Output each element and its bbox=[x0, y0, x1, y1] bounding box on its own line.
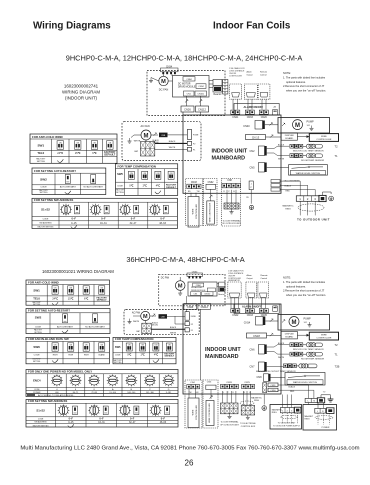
svg-text:1 2: 1 2 bbox=[128, 349, 130, 351]
svg-text:RING: RING bbox=[254, 400, 259, 402]
svg-text:CONTROLLER: CONTROLLER bbox=[229, 76, 243, 78]
svg-text:CN26: CN26 bbox=[187, 306, 194, 309]
svg-text:ROOM TEMP. SENSOR: ROOM TEMP. SENSOR bbox=[301, 358, 325, 360]
svg-text:SW5: SW5 bbox=[115, 345, 121, 349]
svg-text:GENERATOR: GENERATOR bbox=[228, 279, 240, 282]
svg-text:FUSE: FUSE bbox=[191, 316, 197, 318]
svg-text:1 2: 1 2 bbox=[85, 350, 87, 352]
svg-text:BLACK: BLACK bbox=[278, 143, 285, 146]
svg-text:S1+S2: S1+S2 bbox=[36, 409, 45, 413]
svg-text:16–31: 16–31 bbox=[98, 422, 105, 424]
svg-text:RING: RING bbox=[272, 412, 277, 414]
svg-text:AC FAN: AC FAN bbox=[140, 125, 149, 128]
svg-text:16023000001021 WIRING DIAGRA: 16023000001021 WIRING DIAGRAM bbox=[42, 269, 114, 274]
svg-text:WIRE: WIRE bbox=[321, 136, 327, 138]
svg-text:CONTROLLER: CONTROLLER bbox=[316, 139, 331, 141]
svg-text:TO ELECTRICAL: TO ELECTRICAL bbox=[240, 422, 257, 425]
svg-text:141–180: 141–180 bbox=[146, 392, 155, 394]
svg-text:9HCHP0-C-M-A, 12HCHP0-C-M-A, 1: 9HCHP0-C-M-A, 12HCHP0-C-M-A, 18HCHP0-C-M… bbox=[66, 54, 303, 63]
svg-text:AUTO-RESTART: AUTO-RESTART bbox=[57, 326, 74, 329]
svg-text:36HCHP0-C-M-A, 48HCHP0-C-M-A: 36HCHP0-C-M-A, 48HCHP0-C-M-A bbox=[126, 255, 244, 264]
svg-text:72–88: 72–88 bbox=[91, 392, 97, 394]
svg-text:NOTE:: NOTE: bbox=[283, 71, 291, 75]
svg-text:WIRE: WIRE bbox=[193, 409, 195, 415]
svg-text:CN28: CN28 bbox=[226, 382, 232, 384]
svg-text:M: M bbox=[161, 79, 166, 85]
svg-text:SW2: SW2 bbox=[40, 178, 47, 182]
svg-text:when you use the "on-off" func: when you use the "on-off" function. bbox=[286, 89, 326, 93]
svg-text:RED: RED bbox=[290, 391, 295, 393]
svg-text:1 2: 1 2 bbox=[101, 293, 103, 295]
svg-text:32–47: 32–47 bbox=[129, 422, 136, 424]
svg-text:HIGH: HIGH bbox=[84, 354, 89, 356]
svg-text:RING: RING bbox=[285, 208, 291, 210]
svg-text:WHITE: WHITE bbox=[278, 158, 285, 160]
svg-text:1 2: 1 2 bbox=[85, 293, 87, 295]
svg-text:1 2: 1 2 bbox=[54, 350, 56, 352]
svg-text:108–140: 108–140 bbox=[127, 392, 136, 394]
svg-text:BLACK: BLACK bbox=[170, 326, 177, 329]
svg-text:BLACK: BLACK bbox=[278, 342, 285, 345]
svg-text:RING: RING bbox=[305, 419, 310, 421]
svg-text:RED: RED bbox=[286, 190, 291, 192]
svg-text:BLANK: BLANK bbox=[99, 353, 106, 356]
svg-text:SETTING: SETTING bbox=[37, 161, 46, 163]
svg-text:SW5: SW5 bbox=[117, 172, 123, 176]
svg-text:FACTORY SETTING: FACTORY SETTING bbox=[38, 225, 54, 228]
svg-text:BOARD: BOARD bbox=[285, 137, 293, 140]
svg-text:CODE: CODE bbox=[34, 354, 41, 356]
svg-text:NW ADDRESS: NW ADDRESS bbox=[35, 421, 48, 424]
svg-text:ALARM ON/OFF: ALARM ON/OFF bbox=[242, 305, 262, 309]
svg-text:FOR SETTING NW ADDRESS: FOR SETTING NW ADDRESS bbox=[34, 198, 73, 202]
svg-text:M: M bbox=[295, 123, 300, 129]
svg-text:0–F: 0–F bbox=[99, 418, 104, 421]
svg-text:Reactor: Reactor bbox=[218, 293, 225, 296]
svg-text:OF OUTDOOR UNIT: OF OUTDOOR UNIT bbox=[220, 424, 240, 426]
svg-text:CN20: CN20 bbox=[261, 116, 268, 119]
svg-text:91–100: 91–100 bbox=[109, 392, 117, 394]
svg-text:84–71: 84–71 bbox=[73, 392, 79, 394]
svg-text:1. The parts with dotted line: 1. The parts with dotted line includes bbox=[283, 75, 326, 79]
svg-text:0℃: 0℃ bbox=[127, 353, 131, 356]
svg-text:NW ADDRESS: NW ADDRESS bbox=[39, 222, 52, 225]
svg-text:CODE: CODE bbox=[35, 327, 42, 329]
svg-text:3–181: 3–181 bbox=[166, 392, 172, 394]
svg-text:SW1: SW1 bbox=[33, 288, 40, 292]
svg-text:CN62: CN62 bbox=[208, 182, 215, 184]
svg-text:AUTO-RESTART: AUTO-RESTART bbox=[60, 186, 77, 189]
svg-text:OF OUTDOOR UNIT: OF OUTDOOR UNIT bbox=[222, 223, 242, 225]
svg-text:when you use the "on-off" func: when you use the "on-off" function. bbox=[286, 293, 326, 297]
svg-text:ENC4: ENC4 bbox=[33, 379, 41, 383]
svg-text:CN11: CN11 bbox=[270, 385, 276, 387]
svg-text:WIRE: WIRE bbox=[193, 208, 195, 214]
svg-text:0–F: 0–F bbox=[72, 217, 77, 221]
svg-text:48–63: 48–63 bbox=[159, 222, 166, 225]
svg-text:BOARD: BOARD bbox=[285, 336, 293, 339]
svg-text:CN1: CN1 bbox=[194, 294, 198, 296]
svg-text:Output: Output bbox=[247, 74, 253, 77]
svg-text:WIRE CONTROLLER: WIRE CONTROLLER bbox=[210, 202, 212, 222]
svg-text:Output: Output bbox=[247, 277, 253, 280]
svg-text:CN4: CN4 bbox=[190, 382, 195, 384]
svg-text:M: M bbox=[292, 320, 297, 326]
svg-text:Alarm: Alarm bbox=[247, 274, 253, 277]
svg-text:FOR SETTING AUTO-RESTART: FOR SETTING AUTO-RESTART bbox=[28, 309, 70, 313]
svg-text:WATER LEVEL SWITCH: WATER LEVEL SWITCH bbox=[293, 381, 318, 384]
svg-text:CONTROL BOX: CONTROL BOX bbox=[241, 426, 256, 428]
svg-text:WATER LEVEL SWITCH: WATER LEVEL SWITCH bbox=[296, 172, 321, 175]
svg-text:WIRE CONTROLLER: WIRE CONTROLLER bbox=[209, 403, 211, 423]
svg-text:CN25: CN25 bbox=[244, 382, 250, 384]
svg-text:Multi Manufacturing LLC 2480 G: Multi Manufacturing LLC 2480 Grand Ave.,… bbox=[20, 446, 359, 452]
svg-text:WHITE: WHITE bbox=[133, 321, 140, 323]
svg-text:26: 26 bbox=[185, 459, 194, 468]
svg-text:M: M bbox=[143, 314, 148, 320]
svg-text:1 2: 1 2 bbox=[168, 349, 170, 351]
svg-text:CN100: CN100 bbox=[197, 94, 204, 96]
svg-text:MAINBOARD: MAINBOARD bbox=[205, 354, 239, 360]
svg-text:F2: F2 bbox=[191, 324, 193, 326]
svg-text:SETTING: SETTING bbox=[40, 192, 48, 194]
svg-text:SETTING: SETTING bbox=[33, 361, 41, 363]
svg-text:WHITE: WHITE bbox=[278, 357, 285, 359]
svg-text:Remote: Remote bbox=[261, 274, 269, 277]
svg-text:CODE: CODE bbox=[115, 354, 121, 356]
svg-text:1 2: 1 2 bbox=[101, 350, 103, 352]
svg-text:FOR SETTING NW ADDRESS: FOR SETTING NW ADDRESS bbox=[28, 399, 67, 403]
svg-text:CN112: CN112 bbox=[198, 107, 206, 111]
svg-text:SETTING: SETTING bbox=[33, 304, 41, 306]
svg-text:16–31: 16–31 bbox=[100, 222, 107, 225]
svg-text:MAGNETIC: MAGNETIC bbox=[272, 409, 283, 412]
svg-text:INDOOR UNIT: INDOOR UNIT bbox=[212, 149, 248, 155]
svg-text:optional features.: optional features. bbox=[286, 284, 306, 288]
svg-text:DC MOTOR: DC MOTOR bbox=[178, 84, 191, 86]
svg-text:optional features.: optional features. bbox=[286, 80, 306, 84]
svg-text:Indoor Fan Coils: Indoor Fan Coils bbox=[213, 21, 291, 32]
svg-text:DISPLAY: DISPLAY bbox=[285, 333, 295, 336]
svg-text:Control: Control bbox=[261, 277, 268, 280]
svg-text:CN48: CN48 bbox=[191, 182, 198, 184]
svg-text:1 2: 1 2 bbox=[155, 349, 157, 351]
svg-text:0–F: 0–F bbox=[69, 418, 74, 421]
svg-text:POWER: POWER bbox=[322, 427, 330, 429]
svg-text:CODE: CODE bbox=[34, 389, 40, 391]
svg-text:FOR ONLY ONE POWER NO FOR MODE: FOR ONLY ONE POWER NO FOR MODEL ONLY bbox=[28, 370, 92, 374]
svg-text:WIRE: WIRE bbox=[321, 335, 327, 337]
svg-text:CN6: CN6 bbox=[249, 349, 255, 352]
svg-text:CN7: CN7 bbox=[249, 366, 255, 369]
svg-text:CN10: CN10 bbox=[270, 390, 276, 392]
svg-text:1 2: 1 2 bbox=[141, 349, 143, 351]
svg-text:DRIVE MODULE: DRIVE MODULE bbox=[178, 87, 196, 89]
svg-text:CN 13: CN 13 bbox=[252, 135, 260, 139]
svg-text:S1+S2: S1+S2 bbox=[41, 208, 50, 212]
svg-text:0–F: 0–F bbox=[130, 418, 135, 421]
svg-text:CN84: CN84 bbox=[196, 285, 201, 287]
svg-text:CN5: CN5 bbox=[249, 167, 255, 170]
svg-text:0–15: 0–15 bbox=[68, 422, 74, 424]
svg-text:CN3: CN3 bbox=[207, 382, 212, 384]
svg-text:16023000002741: 16023000002741 bbox=[64, 84, 99, 89]
svg-text:1 2: 1 2 bbox=[157, 178, 159, 180]
svg-text:0–F: 0–F bbox=[160, 217, 165, 221]
svg-text:0–F: 0–F bbox=[101, 217, 106, 221]
svg-text:FOR TEMP COMPENSATION: FOR TEMP COMPENSATION bbox=[118, 165, 156, 169]
svg-text:FOR ANTI-COLD WIND: FOR ANTI-COLD WIND bbox=[32, 135, 63, 139]
svg-text:1. The parts with dotted line: 1. The parts with dotted line includes bbox=[283, 280, 326, 284]
svg-text:CN42: CN42 bbox=[232, 314, 239, 317]
svg-text:J: J bbox=[251, 184, 252, 186]
svg-text:ACCORDING TO RELATED MODEL.: ACCORDING TO RELATED MODEL. bbox=[38, 394, 75, 397]
svg-text:ALARM ON/OFF: ALARM ON/OFF bbox=[244, 105, 264, 109]
svg-text:INDOOR COIL TEMP. SENSOR: INDOOR COIL TEMP. SENSOR bbox=[293, 349, 324, 351]
svg-text:SETTING: SETTING bbox=[34, 332, 42, 334]
svg-text:CN40: CN40 bbox=[243, 125, 250, 128]
svg-text:1 2: 1 2 bbox=[70, 350, 72, 352]
svg-text:SW2: SW2 bbox=[35, 316, 42, 320]
svg-text:POWER: POWER bbox=[33, 392, 41, 394]
svg-text:DEFAULT: DEFAULT bbox=[166, 186, 177, 189]
svg-text:SETTING: SETTING bbox=[114, 362, 122, 364]
svg-text:F1: F1 bbox=[191, 330, 193, 332]
svg-text:NO AUTO-RESTART: NO AUTO-RESTART bbox=[85, 326, 105, 329]
svg-text:CN14: CN14 bbox=[244, 322, 251, 325]
svg-text:TO OUTDOOR UNIT: TO OUTDOOR UNIT bbox=[278, 423, 297, 425]
svg-text:SW6: SW6 bbox=[33, 345, 40, 349]
svg-text:AC FAN: AC FAN bbox=[132, 312, 141, 315]
svg-text:WIRING DIAGRAM: WIRING DIAGRAM bbox=[62, 90, 100, 95]
svg-text:CN34: CN34 bbox=[192, 272, 198, 274]
svg-text:WHITE: WHITE bbox=[169, 147, 176, 149]
svg-text:TO OUTDOOR UNIT: TO OUTDOOR UNIT bbox=[297, 217, 330, 221]
svg-text:DC FAN: DC FAN bbox=[159, 88, 169, 92]
svg-text:FUSE: FUSE bbox=[193, 135, 199, 137]
svg-text:NO AUTO-RESTART: NO AUTO-RESTART bbox=[83, 186, 103, 189]
svg-text:DC MOTOR: DC MOTOR bbox=[191, 287, 202, 289]
svg-text:INDOOR COIL TEMP. SENSOR: INDOOR COIL TEMP. SENSOR bbox=[293, 151, 324, 153]
svg-text:CODE: CODE bbox=[117, 186, 123, 188]
svg-text:Alarm: Alarm bbox=[247, 71, 253, 74]
svg-text:WHITE: WHITE bbox=[170, 333, 177, 335]
svg-text:(BLUE): (BLUE) bbox=[152, 325, 158, 327]
svg-text:SETTING: SETTING bbox=[116, 192, 124, 194]
svg-text:DISPLAY: DISPLAY bbox=[285, 134, 295, 137]
svg-text:MAINBOARD: MAINBOARD bbox=[212, 156, 246, 162]
svg-text:CN26: CN26 bbox=[184, 107, 191, 111]
svg-text:2℃: 2℃ bbox=[141, 353, 145, 356]
svg-text:0–F: 0–F bbox=[161, 418, 166, 421]
svg-text:CN100: CN100 bbox=[204, 294, 210, 296]
svg-text:48–63: 48–63 bbox=[160, 422, 167, 424]
svg-text:DEFAULT: DEFAULT bbox=[97, 299, 108, 302]
svg-text:T2B: T2B bbox=[335, 364, 340, 368]
svg-text:MAGNETIC: MAGNETIC bbox=[283, 205, 294, 208]
svg-text:CN8: CN8 bbox=[227, 180, 232, 182]
svg-text:HIGH: HIGH bbox=[68, 354, 73, 356]
svg-text:1 2: 1 2 bbox=[77, 148, 79, 150]
svg-text:DEFAULT: DEFAULT bbox=[165, 355, 175, 358]
svg-text:DEFAULT: DEFAULT bbox=[104, 154, 115, 157]
svg-text:BLACK: BLACK bbox=[285, 185, 292, 188]
svg-text:CODE: CODE bbox=[43, 219, 49, 221]
svg-text:CONTROLLER: CONTROLLER bbox=[316, 338, 331, 340]
svg-text:Remote: Remote bbox=[260, 71, 268, 74]
svg-text:BLACK: BLACK bbox=[289, 385, 296, 388]
svg-text:(INDOOR UNIT): (INDOOR UNIT) bbox=[65, 96, 97, 101]
svg-text:FACTORY SETTING: FACTORY SETTING bbox=[33, 424, 49, 427]
svg-text:YW: YW bbox=[196, 191, 199, 193]
svg-text:1 2: 1 2 bbox=[59, 148, 61, 150]
svg-text:CN112: CN112 bbox=[201, 306, 209, 309]
svg-text:CONTROLLER: CONTROLLER bbox=[196, 405, 198, 420]
svg-text:CN41: CN41 bbox=[232, 116, 239, 119]
svg-text:TEL0: TEL0 bbox=[37, 151, 44, 155]
svg-text:M: M bbox=[144, 133, 149, 139]
svg-text:M: M bbox=[178, 284, 183, 290]
svg-text:DC FAN: DC FAN bbox=[161, 277, 170, 280]
svg-text:2.Remove the short connector o: 2.Remove the short connector of JT bbox=[283, 84, 325, 88]
svg-text:CN43: CN43 bbox=[247, 314, 254, 317]
svg-text:2.Remove the short connector o: 2.Remove the short connector of JT bbox=[283, 289, 325, 293]
svg-text:CAP: CAP bbox=[134, 150, 139, 153]
svg-text:FOR TEMP COMPENSATION: FOR TEMP COMPENSATION bbox=[115, 337, 153, 341]
svg-text:1 2: 1 2 bbox=[54, 293, 56, 295]
svg-text:FOR FAN IN-BLANK RATE SW: FOR FAN IN-BLANK RATE SW bbox=[28, 337, 69, 341]
svg-text:15℃: 15℃ bbox=[75, 151, 82, 155]
svg-text:CN34: CN34 bbox=[198, 86, 204, 88]
svg-text:BLACK: BLACK bbox=[169, 140, 176, 143]
svg-text:4℃: 4℃ bbox=[154, 353, 158, 356]
svg-text:PUMP: PUMP bbox=[307, 121, 315, 124]
svg-text:HIGH: HIGH bbox=[53, 354, 58, 356]
svg-text:FOR SETTING AUTO-RESTART: FOR SETTING AUTO-RESTART bbox=[34, 169, 76, 173]
svg-text:MAGNET: MAGNET bbox=[305, 415, 314, 418]
svg-text:1 2: 1 2 bbox=[130, 178, 132, 180]
svg-text:1 2: 1 2 bbox=[70, 293, 72, 295]
svg-text:0–F: 0–F bbox=[131, 217, 136, 221]
svg-text:To COM TERMINAL: To COM TERMINAL bbox=[221, 421, 240, 424]
svg-text:CN8: CN8 bbox=[256, 376, 262, 379]
svg-text:INDOOR UNIT: INDOOR UNIT bbox=[205, 347, 241, 353]
svg-text:CN84: CN84 bbox=[186, 79, 192, 81]
svg-text:CONTROLLER: CONTROLLER bbox=[196, 204, 198, 219]
svg-text:PUMP: PUMP bbox=[304, 318, 312, 321]
svg-text:DRIVE MODULE: DRIVE MODULE bbox=[191, 290, 206, 292]
svg-text:1 2: 1 2 bbox=[109, 148, 111, 150]
svg-text:ROOM TEMP. SENSOR: ROOM TEMP. SENSOR bbox=[301, 160, 325, 162]
svg-text:1 2: 1 2 bbox=[170, 178, 172, 180]
svg-text:32–47: 32–47 bbox=[130, 222, 137, 225]
svg-text:TO OUTDOOR POWER SUPPLY: TO OUTDOOR POWER SUPPLY bbox=[273, 425, 301, 427]
svg-text:SW1: SW1 bbox=[37, 143, 44, 147]
svg-text:CBB: CBB bbox=[161, 135, 166, 137]
svg-text:24℃: 24℃ bbox=[57, 151, 64, 155]
svg-text:CN33: CN33 bbox=[247, 116, 254, 119]
svg-text:0–15: 0–15 bbox=[71, 222, 77, 225]
svg-text:CN2: CN2 bbox=[249, 150, 255, 153]
svg-text:Wiring Diagrams: Wiring Diagrams bbox=[33, 21, 111, 32]
svg-text:1 2: 1 2 bbox=[93, 148, 95, 150]
svg-text:WHITE: WHITE bbox=[134, 140, 141, 142]
svg-text:TEL0: TEL0 bbox=[33, 296, 40, 300]
svg-text:NOTE:: NOTE: bbox=[283, 276, 291, 280]
svg-text:CODE: CODE bbox=[40, 187, 47, 189]
svg-text:Control: Control bbox=[260, 74, 267, 77]
svg-text:Reactor: Reactor bbox=[213, 93, 221, 96]
svg-text:To COM TERMINAL: To COM TERMINAL bbox=[223, 220, 242, 223]
svg-text:FOR ANTI-COLD WIND: FOR ANTI-COLD WIND bbox=[28, 280, 59, 284]
svg-text:CN18: CN18 bbox=[253, 334, 260, 338]
svg-text:1 2: 1 2 bbox=[144, 178, 146, 180]
svg-text:CODE: CODE bbox=[38, 419, 44, 421]
